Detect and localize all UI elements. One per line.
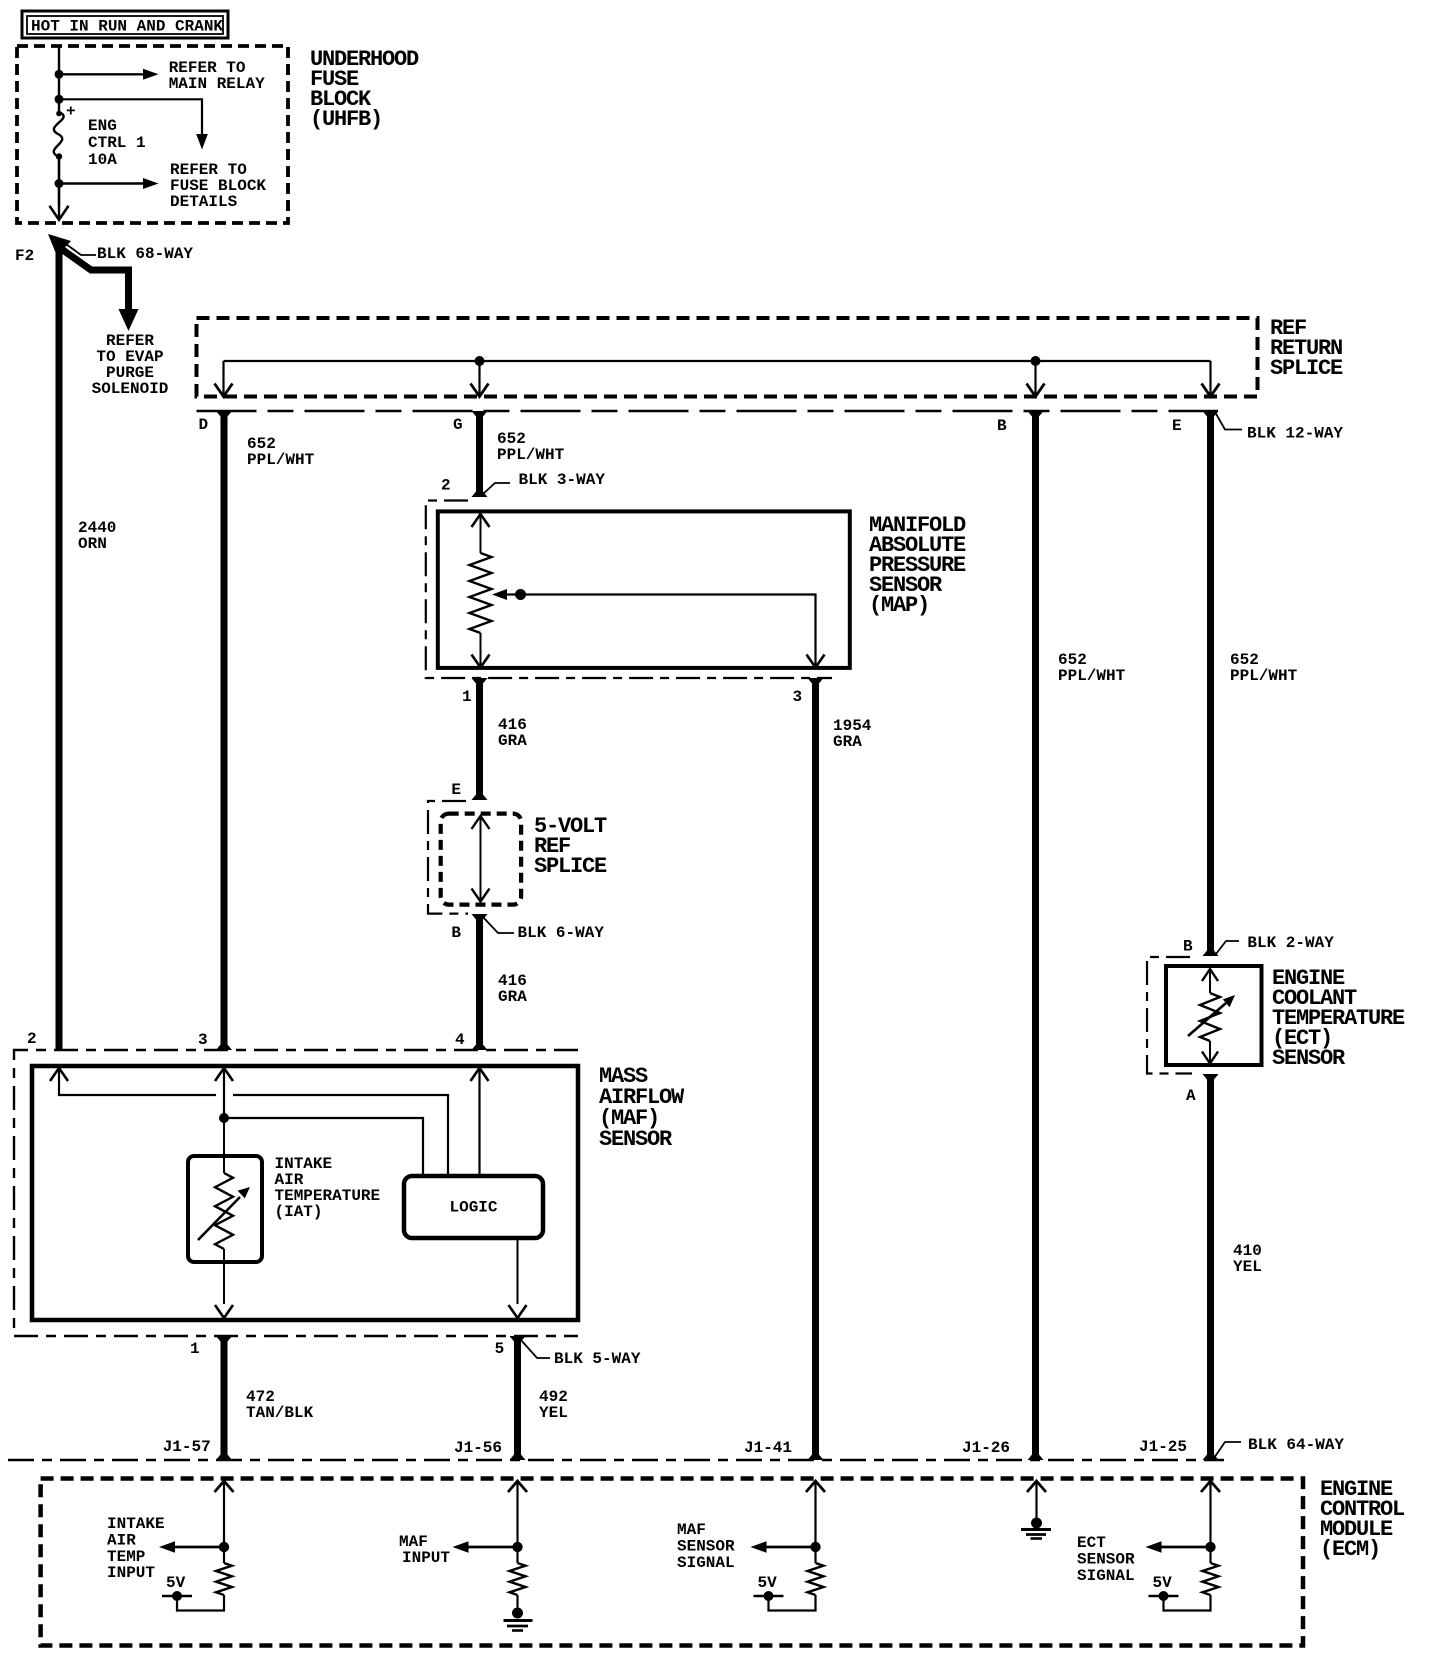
wire exit arrow from fuse block [50, 157, 69, 220]
svg-text:(ECM): (ECM) [1320, 1537, 1380, 1562]
svg-text:INPUT: INPUT [107, 1564, 155, 1582]
svg-text:CTRL 1: CTRL 1 [88, 134, 146, 152]
node F2 connector pin [15, 247, 34, 265]
underhood fuse block UHFB dashed box [17, 46, 288, 223]
svg-text:(UHFB): (UHFB) [310, 107, 382, 132]
title box HOT IN RUN AND CRANK [22, 11, 228, 38]
pin A (ECT) [1186, 1087, 1196, 1105]
svg-text:B: B [451, 924, 461, 942]
svg-text:10A: 10A [88, 151, 117, 169]
pin J1-57 [163, 1438, 211, 1456]
label BLK 12-WAY with leader [1215, 412, 1343, 443]
svg-text:PPL/WHT: PPL/WHT [1230, 667, 1298, 685]
node junction J1-56 [512, 1542, 522, 1552]
splice box 5-VOLT REF SPLICE [441, 814, 521, 905]
svg-text:BLK 2-WAY: BLK 2-WAY [1247, 934, 1334, 952]
wire splice drop D with arrow [215, 361, 233, 397]
label MASS AIRFLOW (MAF) SENSOR [599, 1064, 685, 1152]
node junction to fuse block details [55, 95, 64, 104]
svg-text:(IAT): (IAT) [275, 1203, 323, 1221]
svg-text:BLK 64-WAY: BLK 64-WAY [1248, 1436, 1344, 1454]
svg-text:5V: 5V [1153, 1574, 1173, 1592]
svg-text:(MAP): (MAP) [869, 593, 929, 618]
pin 4 (MAF) [455, 1031, 465, 1049]
pin J1-56 [454, 1439, 502, 1457]
svg-text:SPLICE: SPLICE [1270, 356, 1343, 381]
label BLK 3-WAY with leader [483, 471, 605, 494]
sensor box MAP [438, 511, 850, 668]
wire signal arrow J1-41 MAF sensor signal [751, 1541, 816, 1553]
label 492 YEL [539, 1388, 568, 1422]
wire IAT to MAF pin 1 [215, 1249, 233, 1318]
wire signal arrow J1-56 [453, 1541, 518, 1553]
wire 410 YEL from ECT A to J1-25 [1203, 1074, 1219, 1460]
svg-text:GRA: GRA [833, 733, 862, 751]
pin 5 (MAF bottom) [495, 1340, 505, 1358]
thermistor IAT element [198, 1173, 250, 1249]
svg-text:INPUT: INPUT [402, 1549, 450, 1567]
svg-text:INTAKE: INTAKE [107, 1515, 165, 1533]
svg-text:E: E [451, 781, 461, 799]
wire 652 PPL/WHT column G [472, 411, 488, 497]
label 5-VOLT REF SPLICE [534, 814, 607, 879]
label ECT SENSOR SIGNAL [1077, 1534, 1135, 1585]
label 416 GRA (upper) [498, 716, 527, 750]
svg-text:A: A [1186, 1087, 1196, 1105]
svg-text:YEL: YEL [1233, 1258, 1262, 1276]
label ENGINE CONTROL MODULE (ECM) [1320, 1477, 1405, 1562]
svg-text:F2: F2 [15, 247, 34, 265]
svg-text:B: B [1183, 938, 1193, 956]
wire 652 PPL/WHT column B [1028, 411, 1044, 1460]
svg-text:PPL/WHT: PPL/WHT [247, 451, 315, 469]
svg-text:5V: 5V [166, 1574, 186, 1592]
svg-text:GRA: GRA [498, 988, 527, 1006]
svg-text:4: 4 [455, 1031, 465, 1049]
wire signal arrow J1-25 ECT sensor signal [1146, 1541, 1211, 1553]
pin E (6-way) [451, 781, 461, 799]
wire splice vertical with arrows [472, 816, 490, 902]
svg-text:SIGNAL: SIGNAL [1077, 1567, 1135, 1585]
wire LOGIC to MAF pin 5 [509, 1238, 527, 1318]
pin B (ECT) [1183, 938, 1193, 956]
svg-text:SENSOR: SENSOR [1272, 1046, 1346, 1071]
svg-text:1: 1 [190, 1340, 200, 1358]
wire arrow REFER TO MAIN RELAY [59, 59, 265, 93]
svg-text:HOT IN RUN AND CRANK: HOT IN RUN AND CRANK [31, 18, 223, 36]
wire branch to EVAP purge solenoid [60, 248, 168, 398]
label INTAKE AIR TEMP INPUT [107, 1515, 165, 1582]
svg-text:5: 5 [495, 1340, 505, 1358]
label BLK 5-WAY with leader [521, 1340, 641, 1368]
resistor pull-up J1-41 MAF sensor signal [808, 1547, 824, 1595]
sensor box ECT [1166, 966, 1262, 1065]
svg-text:SENSOR: SENSOR [677, 1538, 735, 1556]
svg-text:SENSOR: SENSOR [599, 1127, 673, 1152]
svg-text:YEL: YEL [539, 1404, 568, 1422]
svg-text:SOLENOID: SOLENOID [92, 380, 169, 398]
wire signal arrow J1-57 intake air temp [159, 1541, 224, 1553]
svg-text:G: G [453, 416, 463, 434]
wire splice drop B with arrow [1027, 361, 1045, 397]
svg-text:BLK 68-WAY: BLK 68-WAY [97, 245, 193, 263]
label BLK 6-WAY with leader [482, 916, 604, 942]
wire F2 thick with top arrow [48, 234, 71, 1050]
svg-text:MAF: MAF [677, 1521, 706, 1539]
svg-text:AIR: AIR [107, 1532, 136, 1550]
pin 3 (MAF) [198, 1031, 208, 1049]
pin B (6-way) [451, 924, 461, 942]
label UNDERHOOD FUSE BLOCK (UHFB) [310, 47, 419, 132]
connector boundary BLK 6-WAY (dash-dot) [428, 801, 468, 914]
wire MAF pin 4 to logic [471, 1068, 489, 1176]
label 410 YEL [1233, 1242, 1262, 1276]
svg-text:D: D [199, 416, 209, 434]
wire arrow lower to fuse block details [59, 178, 159, 189]
wire to 5V J1-57 intake air temp [177, 1595, 224, 1611]
resistor pull-down J1-56 [510, 1547, 526, 1595]
power node 5V J1-25 ECT sensor signal [1149, 1574, 1179, 1601]
svg-text:1: 1 [462, 688, 472, 706]
wire junction down to IAT [223, 1118, 225, 1173]
ground J1-56 [504, 1595, 533, 1631]
svg-text:J1-26: J1-26 [962, 1439, 1010, 1457]
svg-text:PPL/WHT: PPL/WHT [1058, 667, 1126, 685]
label 652 PPL/WHT (D) [247, 435, 315, 469]
label BLK 2-WAY with leader [1216, 934, 1334, 954]
module box ECM dashed [41, 1479, 1303, 1646]
node junction lower fuse [55, 179, 64, 188]
svg-text:LOGIC: LOGIC [449, 1199, 497, 1217]
ground J1-26 [1021, 1518, 1051, 1539]
svg-text:SENSOR: SENSOR [1077, 1551, 1135, 1569]
pin J1-25 [1139, 1438, 1187, 1456]
svg-text:J1-25: J1-25 [1139, 1438, 1187, 1456]
connector line BLK 64-WAY [8, 1459, 1224, 1461]
wire splice drop G with arrow [471, 361, 489, 397]
label 652 PPL/WHT (G) [497, 430, 565, 464]
svg-text:BLK 12-WAY: BLK 12-WAY [1247, 425, 1343, 443]
label MAF SENSOR SIGNAL [677, 1521, 735, 1572]
wire to 5V J1-25 ECT sensor signal [1164, 1595, 1211, 1611]
wire ECM ground J1-26 [1027, 1481, 1046, 1518]
connector line BLK 12-WAY [197, 410, 1219, 412]
svg-text:BLK 5-WAY: BLK 5-WAY [554, 1350, 641, 1368]
node junction J1-25 ECT sensor signal [1205, 1542, 1215, 1552]
label MAF INPUT [399, 1533, 450, 1567]
wire fuse block vertical feed [58, 46, 60, 206]
wire junction to logic [224, 1118, 423, 1176]
pin 1 (MAF bottom) [190, 1340, 200, 1358]
label 652 PPL/WHT (B) [1058, 651, 1126, 685]
connector boundary BLK 2-WAY (dash-dot) [1147, 957, 1192, 1074]
label BLK 68-WAY with leader [66, 244, 193, 263]
svg-text:TAN/BLK: TAN/BLK [246, 1404, 314, 1422]
node splice junction G [475, 356, 485, 366]
node junction MAF pin3/IAT [219, 1113, 229, 1123]
svg-text:BLK 6-WAY: BLK 6-WAY [518, 924, 605, 942]
sensor box MAF [32, 1066, 578, 1320]
connector boundary MAF (dash-dot) [14, 1050, 578, 1336]
svg-text:GRA: GRA [498, 732, 527, 750]
wire to 5V J1-41 MAF sensor signal [769, 1595, 816, 1611]
svg-text:+: + [66, 103, 76, 121]
wire ECM input J1-56 MAF input [508, 1481, 527, 1547]
pin 2 (MAF) [27, 1030, 37, 1048]
wire MAF pin 3 entry [215, 1068, 233, 1118]
sensor box IAT [188, 1156, 262, 1262]
label MANIFOLD ABSOLUTE PRESSURE SENSOR (MAP) [869, 513, 966, 618]
svg-text:SPLICE: SPLICE [534, 854, 607, 879]
svg-text:DETAILS: DETAILS [170, 193, 238, 211]
pin B [997, 417, 1007, 435]
pin 2 (MAP) [441, 477, 451, 495]
svg-text:MAIN RELAY: MAIN RELAY [169, 75, 265, 93]
label 2440 ORN [78, 519, 116, 553]
label 1954 GRA [833, 717, 872, 751]
pin 3 (MAP) [793, 688, 803, 706]
node junction to main relay [55, 70, 64, 79]
wire 492 YEL (pin5 to J1-56) [510, 1336, 526, 1460]
fuse ENG CTRL 1 10A [54, 103, 146, 169]
wire splice bus horizontal [224, 360, 1211, 362]
wire 416 GRA lower (to MAF pin 4) [472, 914, 488, 1050]
svg-text:SIGNAL: SIGNAL [677, 1554, 735, 1572]
wire splice drop E with arrow [1202, 361, 1220, 397]
node junction J1-41 MAF sensor signal [810, 1542, 820, 1552]
power node 5V J1-57 intake air temp [162, 1574, 192, 1601]
svg-text:TEMP: TEMP [107, 1548, 145, 1566]
wire 472 TAN/BLK (pin1 to J1-57) [216, 1336, 232, 1460]
connector boundary BLK 3-WAY (dash-dot) [426, 501, 832, 679]
svg-text:5V: 5V [758, 1574, 778, 1592]
pin J1-41 [744, 1439, 792, 1457]
pin E [1172, 417, 1182, 435]
wire ECM input J1-25 ECT sensor signal [1201, 1481, 1220, 1547]
wire ECM input J1-57 intake air temp [215, 1481, 234, 1547]
label 472 TAN/BLK [246, 1388, 314, 1422]
svg-text:J1-56: J1-56 [454, 1439, 502, 1457]
pin 1 (MAP) [462, 688, 472, 706]
svg-text:3: 3 [198, 1031, 208, 1049]
svg-text:ECT: ECT [1077, 1534, 1106, 1552]
power node 5V J1-41 MAF sensor signal [754, 1574, 784, 1601]
svg-text:ORN: ORN [78, 535, 107, 553]
label ENGINE COOLANT TEMPERATURE (ECT) SENSOR [1272, 966, 1405, 1071]
svg-text:3: 3 [793, 688, 803, 706]
wire 652 PPL/WHT column D [216, 411, 232, 1050]
svg-text:J1-57: J1-57 [163, 1438, 211, 1456]
wire 652 PPL/WHT column E [1203, 411, 1219, 956]
svg-text:B: B [997, 417, 1007, 435]
pin J1-26 [962, 1439, 1010, 1457]
logic box LOGIC [404, 1176, 543, 1238]
potentiometer MAP element [470, 514, 492, 668]
svg-text:J1-41: J1-41 [744, 1439, 792, 1457]
wire arrow down REFER TO FUSE BLOCK DETAILS [59, 99, 266, 211]
svg-text:ENG: ENG [88, 117, 117, 135]
svg-text:BLK 3-WAY: BLK 3-WAY [519, 471, 606, 489]
wire 416 GRA from MAP pin 1 [472, 678, 488, 800]
svg-text:PPL/WHT: PPL/WHT [497, 446, 565, 464]
node junction J1-57 intake air temp [219, 1542, 229, 1552]
label 416 GRA (lower) [498, 972, 527, 1006]
splice box REF RETURN SPLICE [197, 318, 1258, 397]
wire ECM input J1-41 MAF sensor signal [806, 1481, 825, 1547]
pin G [453, 416, 463, 434]
label 652 PPL/WHT (E) [1230, 651, 1298, 685]
svg-text:2: 2 [441, 477, 451, 495]
wire MAF pin 2 to logic [50, 1068, 448, 1176]
svg-text:2: 2 [27, 1030, 37, 1048]
label BLK 64-WAY with leader [1214, 1436, 1344, 1458]
pin D [199, 416, 209, 434]
resistor pull-up J1-25 ECT sensor signal [1203, 1547, 1219, 1595]
label REF RETURN SPLICE [1270, 316, 1343, 381]
node splice junction B [1031, 356, 1041, 366]
label INTAKE AIR TEMPERATURE (IAT) [275, 1155, 381, 1221]
wire 1954 GRA from MAP pin 3 to J1-41 [808, 678, 824, 1460]
wiper arrow MAP (pin 3 tap) [492, 589, 825, 668]
thermistor ECT element [1188, 969, 1235, 1064]
svg-text:E: E [1172, 417, 1182, 435]
resistor pull-up J1-57 intake air temp [216, 1547, 232, 1595]
